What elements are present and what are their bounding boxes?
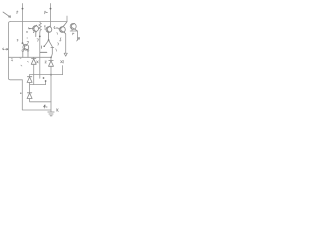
splitter diagonals bbox=[44, 40, 52, 57]
D1 bottom wire bbox=[33, 64, 35, 84]
output arrow right bbox=[77, 38, 80, 41]
specks below bus left bbox=[20, 58, 29, 66]
diode D1 bbox=[31, 58, 36, 64]
tick on right branch bbox=[51, 46, 54, 48]
D4 bottom wire corner right bbox=[30, 99, 51, 102]
transistor T4 bbox=[70, 23, 77, 31]
D2 bottom long wire to ground bbox=[50, 66, 52, 112]
transistor T1 bbox=[30, 25, 38, 36]
branch wire right at 84.6 bbox=[30, 81, 46, 85]
label z bbox=[45, 61, 47, 63]
ground arrow under T3 bbox=[64, 53, 67, 56]
resistor R (vertical zigzag from top wire) bbox=[39, 22, 42, 32]
junction dot on D2 wire bbox=[50, 74, 52, 76]
figure lead arrow bbox=[3, 12, 11, 17]
junction dot input1 bottom bbox=[22, 42, 24, 44]
junction dot input1 bbox=[22, 8, 24, 10]
dot top of branch stub bbox=[45, 80, 47, 82]
diode D3 bbox=[27, 77, 32, 83]
speck c bbox=[27, 37, 28, 38]
diode D4 bbox=[27, 93, 32, 99]
dot near resistor wire bottom bbox=[43, 77, 45, 79]
speck a bbox=[26, 31, 27, 32]
junction dot input2 bbox=[50, 8, 52, 10]
D2 top lead bbox=[50, 57, 52, 60]
label 6 near T2 bbox=[44, 25, 45, 27]
label x2 bbox=[61, 60, 64, 63]
ground symbol bottom bbox=[48, 112, 54, 116]
label 7 right of T5 bbox=[27, 41, 29, 43]
capacitor bar bbox=[40, 51, 47, 53]
stub above top wire right end bbox=[66, 16, 68, 22]
speck right of splitter bbox=[55, 49, 58, 51]
transistor T5 bbox=[23, 43, 29, 50]
label under T4 bbox=[72, 33, 74, 35]
D1 top lead bbox=[33, 57, 35, 58]
T1 base label dot bbox=[29, 28, 30, 29]
splitter node under T2 bbox=[48, 39, 50, 41]
D3 top lead bbox=[29, 75, 31, 77]
T5 leads to bus bbox=[23, 51, 28, 57]
horizontal wire under diodes bbox=[30, 74, 63, 76]
label k bottom right bbox=[57, 109, 59, 112]
T5 emitter bubbles bbox=[22, 50, 24, 52]
speck near left branch bbox=[41, 46, 43, 49]
label 6 dash left of T3 bbox=[54, 27, 58, 29]
speck below T3 bbox=[56, 32, 59, 34]
label x1 bbox=[37, 61, 39, 63]
input label b outside box bbox=[3, 48, 8, 50]
transistor T3 bbox=[58, 22, 67, 34]
node dot on resistor wire bbox=[39, 36, 41, 38]
label 5 inside box bbox=[11, 59, 13, 61]
enclosure box left/top edge bbox=[8, 22, 22, 80]
label eps left of T5 bbox=[17, 39, 18, 41]
label t (top-left numeral) bbox=[17, 11, 18, 14]
wire resistor to bus bbox=[39, 32, 41, 78]
label near T1 base bbox=[27, 27, 29, 29]
speck near left wire bbox=[20, 93, 21, 94]
T4 under-wire bbox=[70, 31, 77, 40]
wire box bottom down-left vertical bbox=[22, 80, 51, 110]
blob left branch end bbox=[43, 46, 45, 48]
top supply wire bbox=[10, 21, 67, 23]
T3 emitter wire to ground bbox=[65, 34, 67, 53]
stub down from x2 bbox=[62, 66, 64, 75]
input terminal line 2 bbox=[50, 4, 52, 27]
speck b bbox=[33, 32, 34, 33]
label 7 under resistor node bbox=[37, 39, 39, 42]
junction dot D2 top bbox=[50, 57, 52, 59]
label 4 bottom bbox=[44, 105, 47, 108]
label 9 bbox=[57, 43, 60, 45]
mid bus wire bbox=[8, 56, 51, 58]
D3-D4 wire bbox=[29, 82, 31, 93]
diode D2 bbox=[49, 60, 54, 66]
label 8 bbox=[60, 38, 62, 41]
label d (second input numeral) bbox=[45, 11, 48, 14]
input terminal line 1 bbox=[22, 4, 24, 44]
transistor T2 bbox=[45, 26, 52, 40]
